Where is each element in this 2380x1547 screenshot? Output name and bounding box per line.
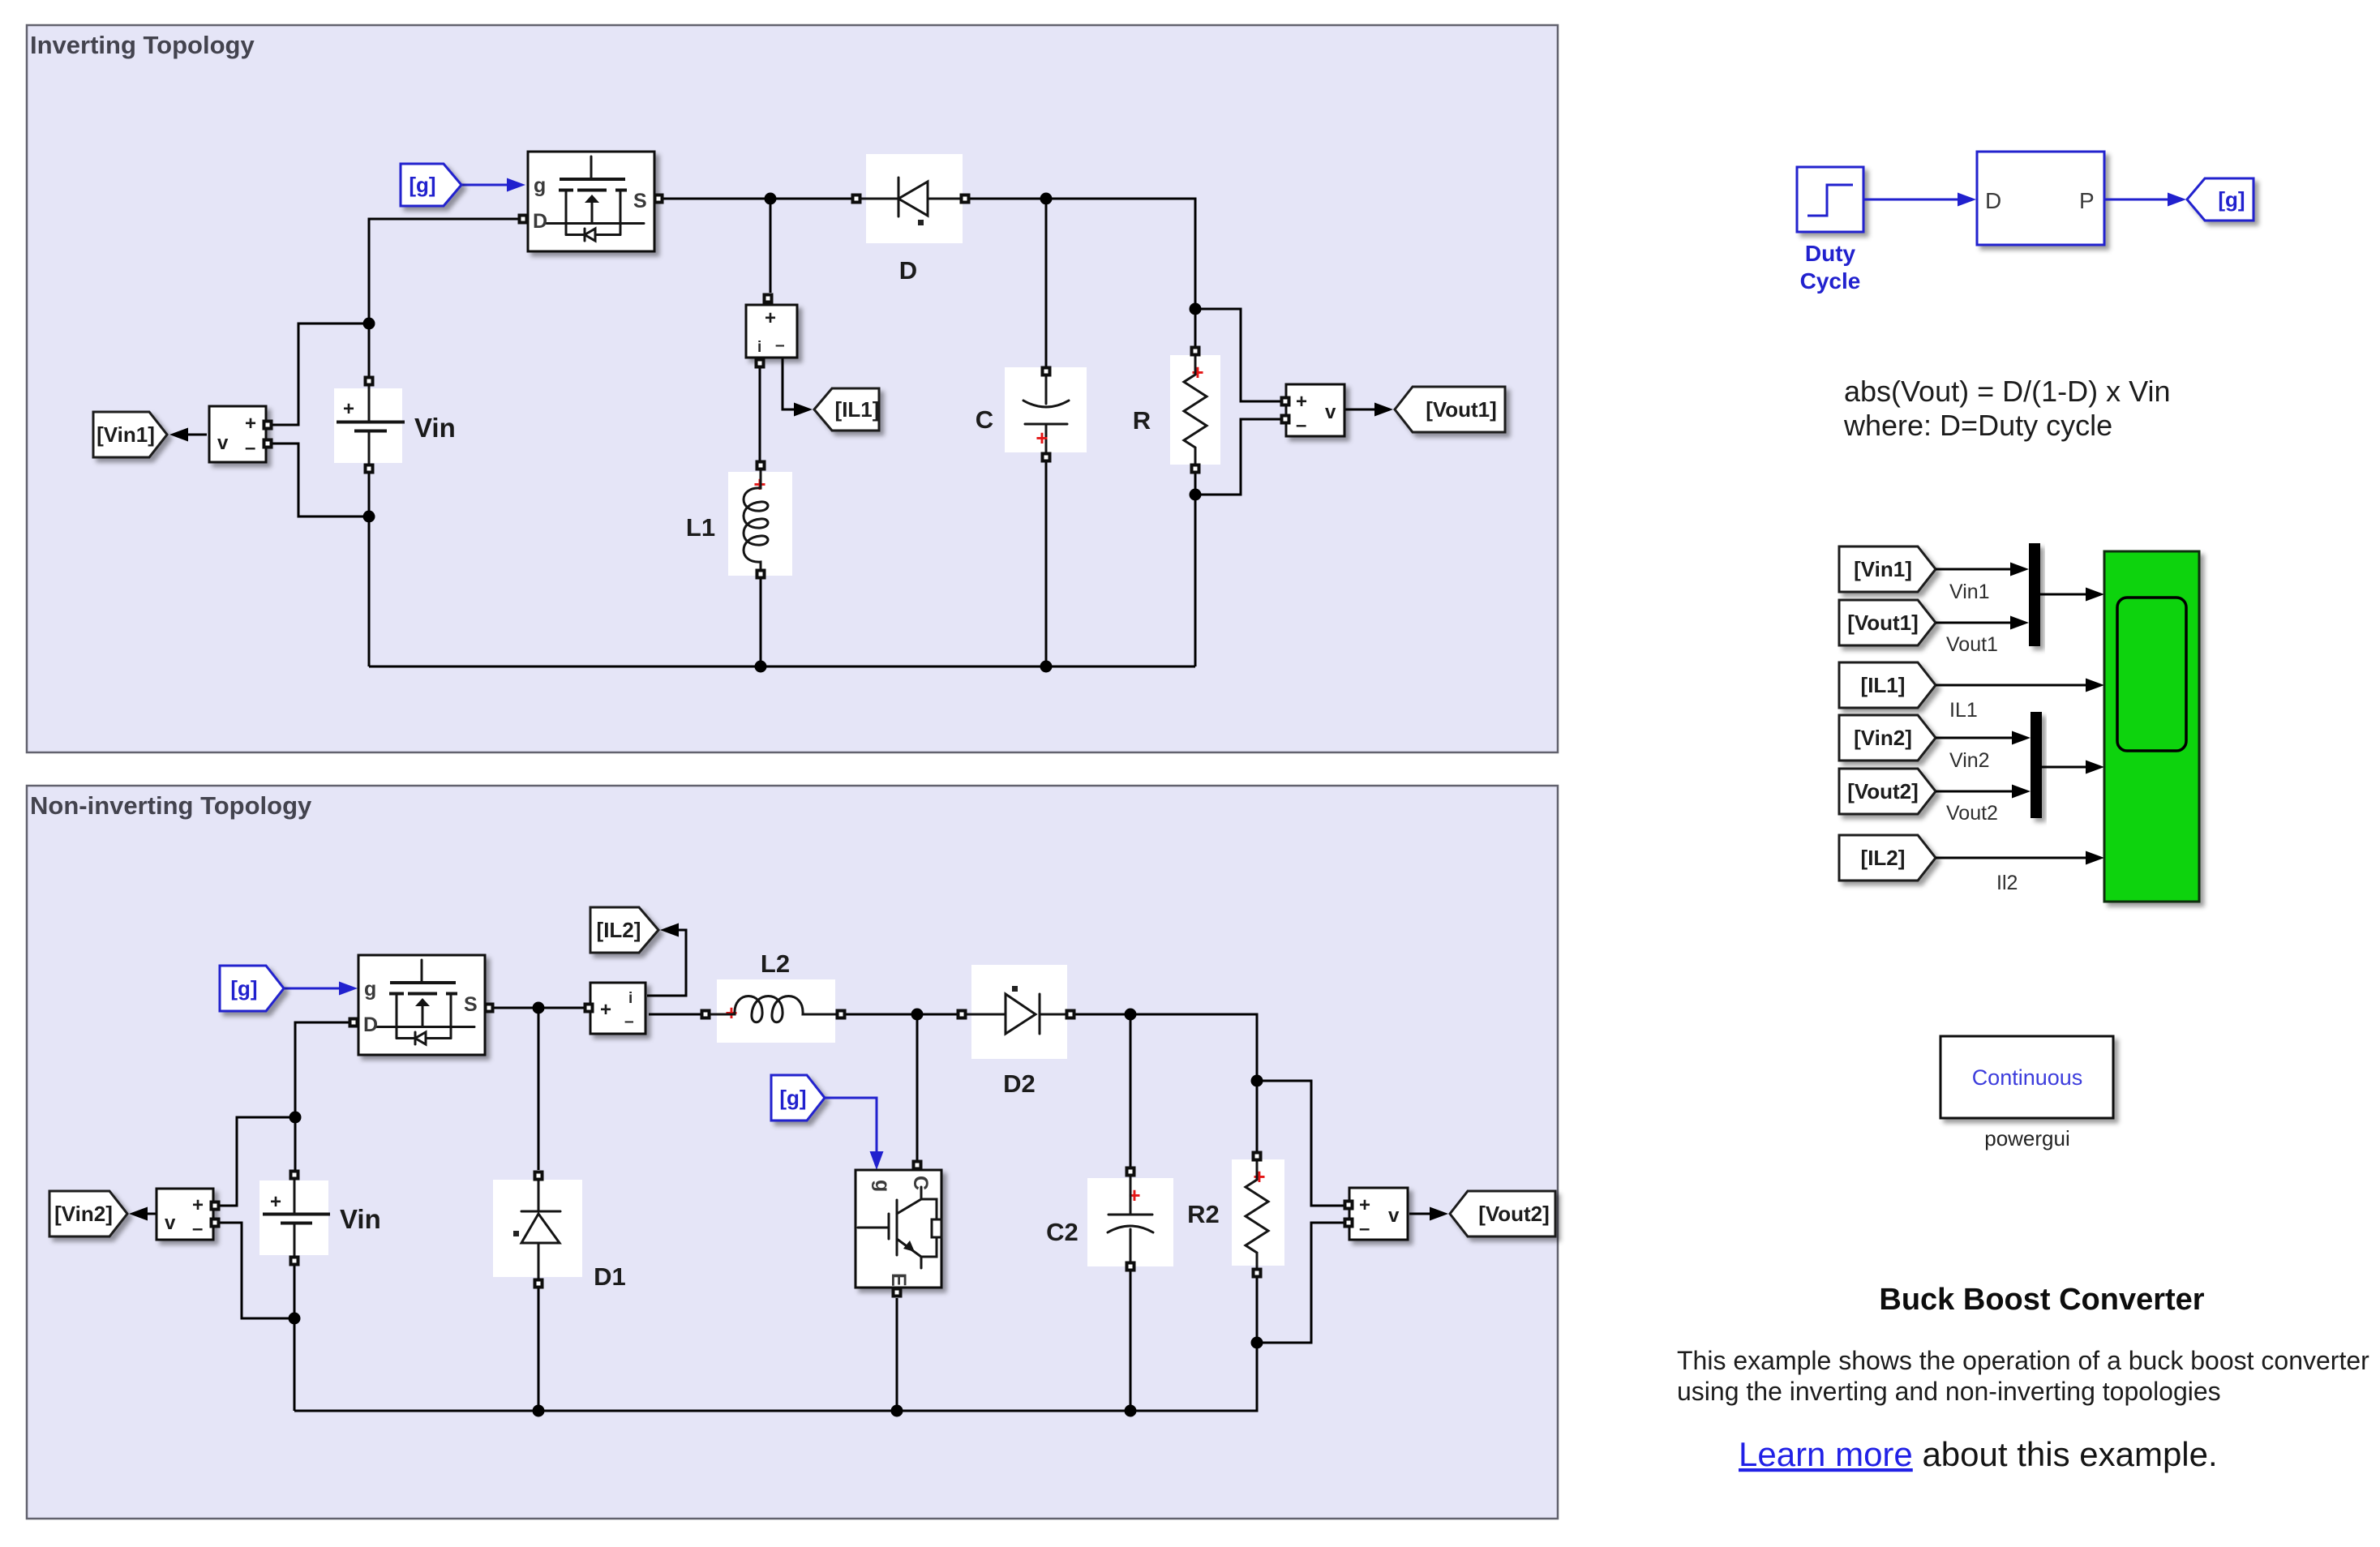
svg-text:v: v	[165, 1212, 176, 1234]
pin: L1 bottom port	[756, 569, 766, 580]
From tag [IL2]	[1839, 835, 1936, 881]
pin: D1 top port	[534, 1171, 544, 1181]
pin: MOSFET1 S port	[654, 194, 664, 204]
pin: current sensor 1 bottom port	[755, 358, 765, 369]
wire: Vin battery minus down to rail	[368, 474, 371, 666]
svg-text:P: P	[2079, 188, 2095, 213]
svg-text:using the inverting and non-in: using the inverting and non-inverting to…	[1677, 1377, 2221, 1406]
wire: diode D to R branch corner	[964, 199, 1195, 349]
wire: Vin voltage sensor plus lead	[268, 324, 363, 425]
svg-text:+: +	[1191, 360, 1203, 384]
pin: v1 minus port	[1280, 414, 1291, 425]
svg-text:D: D	[899, 256, 917, 285]
pin: vin2 sensor plus port	[210, 1201, 221, 1211]
wire: Goto [g] to IGBT gate (blue)	[825, 1098, 884, 1170]
Goto tag [Vout1]	[1395, 387, 1505, 432]
wire: MOSFET2 source to current sensor	[490, 1007, 587, 1009]
svg-text:+: +	[765, 307, 776, 329]
signal label: Vout2	[1946, 802, 1998, 825]
signal label: Il2	[1996, 872, 2018, 894]
MOSFET block Mosfet1	[528, 152, 654, 251]
From tag [g] 2 (blue)	[220, 966, 284, 1011]
Goto tag [IL1]	[814, 388, 879, 431]
label: L1	[686, 513, 715, 542]
pin: Vin1 battery top port	[364, 376, 375, 387]
pin: D2 right port	[1066, 1009, 1076, 1020]
svg-text:L2: L2	[761, 949, 790, 978]
pin: D1 bottom port	[534, 1279, 544, 1289]
node: junction at S2 output	[533, 1002, 545, 1014]
wire: bottom return rail	[369, 666, 1195, 668]
wire: current sensor signal to Goto IL1	[783, 358, 813, 417]
annotation: Learn more link line	[1739, 1435, 2218, 1473]
voltage sensor Vin1 (v)	[209, 406, 266, 462]
svg-text:[IL2]: [IL2]	[1861, 846, 1906, 870]
annotation: description paragraph	[1677, 1346, 2369, 1406]
node: junction above R2	[1251, 1075, 1263, 1087]
wire: L2 to diode D2	[845, 1013, 958, 1016]
svg-text:–: –	[1296, 414, 1306, 436]
wire: R2 bottom to rail corner	[1256, 1275, 1259, 1343]
wire: junction down to IGBT collector	[916, 1014, 919, 1160]
svg-text:S: S	[633, 190, 647, 212]
Goto tag [Vout2]	[1450, 1191, 1555, 1236]
svg-text:g: g	[364, 978, 376, 1001]
wire: From Vin2 to mux2	[1936, 731, 2031, 745]
svg-text:abs(Vout) = D/(1-D) x Vin: abs(Vout) = D/(1-D) x Vin	[1844, 375, 2171, 408]
From tag [Vout1]	[1839, 600, 1936, 645]
svg-text:+: +	[600, 999, 611, 1021]
label: C	[976, 405, 993, 434]
wire: R top junction to voltage sensor plus	[1195, 309, 1284, 401]
pin: Vin2 battery top port	[289, 1170, 300, 1181]
svg-text:E: E	[887, 1273, 910, 1287]
svg-text:D: D	[363, 1013, 378, 1036]
label: Vin (battery 1)	[414, 413, 456, 443]
label: powergui	[1984, 1126, 2070, 1151]
svg-text:[g]: [g]	[409, 173, 435, 197]
pin: R2 bottom port	[1252, 1268, 1263, 1279]
pin: R2 top port	[1252, 1151, 1263, 1162]
svg-text:[Vin2]: [Vin2]	[1854, 726, 1912, 750]
signal label: Vin1	[1949, 581, 1990, 603]
wire: C2 bottom to rail	[1130, 1267, 1132, 1411]
pin: C2 bottom port	[1126, 1262, 1136, 1272]
svg-text:Vin2: Vin2	[1949, 749, 1990, 772]
heading: Buck Boost Converter	[1879, 1283, 2204, 1317]
MOSFET block Mosfet2	[358, 955, 485, 1055]
wire: R bottom junction to voltage sensor minus	[1195, 419, 1284, 495]
wire: Vin2 sensor minus lead	[216, 1223, 289, 1318]
wire: output voltage sensor to Goto Vout1	[1345, 403, 1393, 417]
svg-text:–: –	[775, 336, 785, 354]
wire: R2 bottom junction to voltage sensor minus	[1257, 1223, 1348, 1343]
svg-text:i: i	[757, 339, 761, 356]
pin: C2 top port	[1126, 1167, 1136, 1177]
svg-text:[Vin1]: [Vin1]	[96, 422, 155, 447]
pin: diode D right port	[960, 194, 971, 204]
pin: v2b minus port	[1344, 1218, 1354, 1228]
voltage sensor Vin2 (v)	[157, 1189, 213, 1240]
label: R	[1133, 406, 1151, 435]
wire: Goto [g] to MOSFET gate (blue)	[461, 178, 525, 192]
node: junction at IGBT collector tap	[911, 1009, 924, 1021]
area box: Non-inverting Topology panel	[27, 786, 1558, 1519]
svg-text:L1: L1	[686, 513, 715, 542]
pin: C top port	[1041, 366, 1052, 377]
node: junction at S output	[765, 193, 777, 205]
pin: MOSFET2 S port	[484, 1003, 495, 1013]
svg-text:Non-inverting Topology: Non-inverting Topology	[30, 791, 312, 820]
wire: diode D1 to rail	[538, 1288, 540, 1411]
Goto tag [Vin2]	[49, 1191, 127, 1236]
pin: C bottom port	[1041, 452, 1052, 463]
wire: MOSFET drain D to source column	[369, 219, 521, 378]
pin: vin1 sensor minus port	[263, 439, 273, 449]
node: junction below R2	[1251, 1337, 1263, 1349]
node: junction rail at L1	[755, 661, 767, 673]
wire: Vin2 sensor plus lead	[216, 1117, 289, 1206]
svg-text:i: i	[628, 990, 633, 1007]
svg-text:v: v	[1325, 401, 1336, 423]
pin: vin2 sensor minus port	[210, 1218, 221, 1228]
pin: L2 right port	[836, 1009, 847, 1020]
wire: current sensor to L1	[759, 367, 761, 461]
wire: subsystem to Goto g (blue)	[2104, 193, 2186, 207]
svg-text:–: –	[624, 1012, 634, 1031]
svg-text:Learn more about this example.: Learn more about this example.	[1739, 1435, 2218, 1473]
svg-text:Il2: Il2	[1996, 872, 2018, 894]
label: D	[899, 256, 917, 285]
node: junction rail at IGBT emitter	[891, 1405, 903, 1417]
svg-text:Cycle: Cycle	[1800, 268, 1861, 294]
From tag [Vin1]	[1839, 546, 1936, 592]
From tag [g] 1 (blue)	[401, 164, 461, 206]
IGBT block	[856, 1170, 941, 1288]
subsystem PWM Generator	[1977, 152, 2104, 245]
svg-text:+: +	[1296, 391, 1307, 413]
wire: C2 top branch	[1130, 1014, 1132, 1168]
svg-text:Vout1: Vout1	[1946, 633, 1998, 656]
pin: Vin1 battery bottom port	[364, 464, 375, 474]
svg-text:[g]: [g]	[230, 976, 257, 1001]
pin: v1 plus port	[1280, 396, 1291, 407]
label: C2	[1046, 1218, 1079, 1246]
voltage sensor Vout1 (v)	[1286, 384, 1344, 436]
svg-text:R: R	[1133, 406, 1151, 435]
step source Duty Cycle	[1797, 167, 1863, 232]
node: junction below R	[1190, 489, 1202, 501]
wire: junction down to diode D1	[538, 1008, 540, 1170]
resistor R	[1170, 354, 1220, 469]
wire: L1 to rail	[760, 578, 762, 666]
wire: diode D2 to R2 corner	[1075, 1014, 1257, 1151]
node: junction at Vin plus tap	[363, 318, 375, 330]
wire: Vin voltage sensor minus lead	[268, 444, 363, 516]
svg-text:Continuous: Continuous	[1972, 1065, 2083, 1090]
pin: D2 left port	[957, 1009, 967, 1020]
svg-text:[Vin1]: [Vin1]	[1854, 557, 1912, 581]
pin: Vin2 battery bottom port	[289, 1256, 300, 1266]
Goto tag [Vin1]	[93, 412, 167, 457]
svg-text:C: C	[976, 405, 993, 434]
From tag [Vout2]	[1839, 769, 1936, 814]
svg-text:Vout2: Vout2	[1946, 802, 1998, 825]
svg-text:v: v	[1388, 1205, 1400, 1227]
pin: MOSFET1 D port	[518, 214, 529, 225]
label: Duty Cycle	[1800, 241, 1861, 294]
DC source Vin 1	[334, 383, 405, 467]
node: junction rail at C2	[1125, 1405, 1137, 1417]
node: junction at Vin2 minus tap	[289, 1313, 301, 1325]
svg-text:v: v	[217, 432, 229, 454]
svg-text:D1: D1	[594, 1262, 626, 1291]
inductor L2	[704, 979, 842, 1043]
svg-text:C2: C2	[1046, 1218, 1079, 1246]
node: junction at Vin minus tap	[363, 511, 375, 523]
wire: bottom rail 2	[294, 1343, 1257, 1411]
svg-text:[Vin2]: [Vin2]	[54, 1202, 113, 1226]
svg-text:Vin: Vin	[414, 413, 456, 443]
svg-text:Vin1: Vin1	[1949, 581, 1990, 603]
svg-text:+: +	[270, 1191, 281, 1213]
svg-text:powergui: powergui	[1984, 1126, 2070, 1151]
wire: From Vin1 to mux1	[1936, 563, 2029, 576]
pin: R bottom port	[1190, 464, 1201, 474]
wire: C top branch	[1045, 199, 1048, 367]
From tag [IL1]	[1839, 662, 1936, 708]
pin: current sensor 2 left port	[584, 1003, 594, 1013]
svg-text:+: +	[1253, 1164, 1265, 1189]
svg-text:Buck Boost Converter: Buck Boost Converter	[1879, 1283, 2204, 1317]
capacitor C	[1005, 367, 1087, 456]
wire: C bottom to rail	[1045, 459, 1048, 666]
svg-text:[g]: [g]	[2218, 187, 2245, 212]
svg-text:[IL2]: [IL2]	[597, 918, 641, 942]
wire: Vin2 sensor output to Goto Vin2	[129, 1207, 156, 1221]
diode D	[860, 154, 963, 243]
Goto tag [g] (blue)	[2187, 178, 2253, 221]
label: Vin (battery 2)	[340, 1204, 381, 1234]
svg-text:IL1: IL1	[1949, 699, 1978, 722]
svg-text:This example shows the operati: This example shows the operation of a bu…	[1677, 1346, 2369, 1375]
label: R2	[1187, 1200, 1220, 1228]
wire: From Vout2 to mux2	[1936, 785, 2031, 799]
svg-text:D: D	[1985, 188, 2001, 213]
svg-text:+: +	[1036, 426, 1048, 450]
svg-text:R2: R2	[1187, 1200, 1220, 1228]
inductor L1	[728, 469, 792, 576]
node: junction rail at C	[1040, 661, 1053, 673]
svg-text:[Vout1]: [Vout1]	[1847, 611, 1919, 635]
node: junction rail at D1	[533, 1405, 545, 1417]
capacitor C2	[1087, 1173, 1173, 1266]
mux 2	[2031, 712, 2042, 818]
wire: current sensor 2 signal to Goto IL2	[647, 923, 686, 996]
pin: R top port	[1190, 346, 1201, 357]
pin: L1 top port	[756, 461, 766, 471]
svg-text:+: +	[343, 398, 354, 420]
Goto tag [IL2]	[590, 907, 658, 953]
resistor R2	[1232, 1158, 1284, 1274]
label: L2	[761, 949, 790, 978]
annotation: duty cycle formula	[1843, 375, 2171, 442]
node: junction at Vin2 plus tap	[289, 1112, 302, 1124]
svg-text:D: D	[533, 210, 547, 233]
title: Inverting Topology	[30, 31, 255, 59]
diode D1	[493, 1180, 582, 1279]
svg-text:D2: D2	[1003, 1069, 1036, 1098]
current measurement sensor 2	[590, 983, 645, 1034]
node: junction above R	[1190, 303, 1202, 315]
signal label: IL1	[1949, 699, 1978, 722]
pin: vin1 sensor plus port	[263, 420, 273, 431]
svg-text:Duty: Duty	[1805, 241, 1856, 266]
diode D2	[967, 965, 1068, 1059]
wire: mux2 to scope	[2042, 761, 2104, 774]
svg-text:[Vout2]: [Vout2]	[1478, 1202, 1550, 1226]
wire: From IL1 to scope	[1936, 679, 2104, 692]
svg-text:+: +	[245, 413, 256, 435]
title: Non-inverting Topology	[30, 791, 312, 820]
pin: diode D left port	[851, 194, 862, 204]
svg-text:–: –	[1359, 1218, 1370, 1240]
current measurement sensor 1	[746, 305, 797, 358]
pin: MOSFET2 D port	[349, 1018, 359, 1028]
powergui block	[1940, 1036, 2113, 1118]
svg-text:[g]: [g]	[779, 1086, 806, 1110]
svg-text:g: g	[871, 1180, 894, 1192]
wire: voltage sensor 2 output to Goto Vout2	[1409, 1207, 1448, 1221]
scope block	[2104, 551, 2199, 902]
wire: R2 top junction to voltage sensor plus	[1257, 1081, 1348, 1206]
node: junction at C branch tap	[1040, 193, 1053, 205]
wire: From Vout1 to mux1	[1936, 616, 2029, 630]
wire: current sensor 2 to L2	[649, 1013, 701, 1016]
svg-text:+: +	[1359, 1194, 1370, 1216]
signal label: Vin2	[1949, 749, 1990, 772]
pin: IGBT emitter port	[892, 1288, 903, 1298]
svg-text:where: D=Duty cycle: where: D=Duty cycle	[1843, 409, 2112, 442]
pin: L2 left port	[701, 1009, 711, 1020]
svg-text:g: g	[534, 174, 546, 197]
wire: MOSFET source S to diode D	[656, 198, 855, 200]
pin: v2b plus port	[1344, 1200, 1354, 1211]
svg-text:[Vout1]: [Vout1]	[1426, 397, 1497, 422]
svg-text:Inverting Topology: Inverting Topology	[30, 31, 255, 59]
node: junction at C2 tap	[1125, 1009, 1137, 1021]
svg-text:–: –	[245, 437, 255, 459]
area box: Inverting Topology panel	[27, 25, 1558, 752]
wire: mux1 to scope	[2040, 588, 2104, 602]
label: D2	[1003, 1069, 1036, 1098]
signal label: Vout1	[1946, 633, 1998, 656]
svg-text:[IL1]: [IL1]	[1861, 673, 1906, 697]
wire: Vin2 battery minus to rail	[294, 1266, 296, 1411]
wire: MOSFET2 drain to source column	[295, 1022, 354, 1170]
wire: step to subsystem (blue)	[1863, 193, 1976, 207]
wire: IGBT emitter to rail	[896, 1298, 898, 1411]
From tag [g] 3 (blue)	[771, 1075, 825, 1121]
pin: current sensor 1 top port	[763, 294, 774, 304]
svg-text:S: S	[464, 993, 478, 1016]
From tag [Vin2]	[1839, 715, 1936, 761]
svg-text:[IL1]: [IL1]	[835, 397, 880, 422]
voltage sensor Vout2 (v)	[1349, 1188, 1408, 1240]
mux 1	[2029, 543, 2040, 646]
wire: S junction down to current sensor	[770, 199, 772, 293]
wire: R bottom to ground rail	[1194, 469, 1197, 666]
svg-text:Vin: Vin	[340, 1204, 381, 1234]
DC source Vin 2	[259, 1176, 330, 1259]
svg-text:–: –	[192, 1218, 203, 1240]
svg-text:+: +	[192, 1194, 204, 1216]
label: D1	[594, 1262, 626, 1291]
wire: Vin voltage sensor output to Goto Vin1	[169, 428, 207, 442]
wire: Goto [g] to MOSFET2 gate (blue)	[284, 982, 358, 996]
wire: From IL2 to scope	[1936, 851, 2104, 865]
svg-text:[Vout2]: [Vout2]	[1847, 779, 1919, 803]
pin: IGBT collector port	[912, 1160, 923, 1171]
